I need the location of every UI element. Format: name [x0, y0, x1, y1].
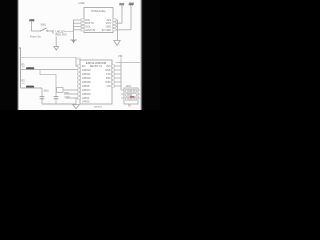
ground — [114, 41, 120, 46]
svg-text:GPIO19: GPIO19 — [82, 77, 91, 80]
MCU U2 ESP32 — [78, 57, 115, 108]
svg-text:GND: GND — [105, 69, 111, 72]
svg-text:SW1: SW1 — [41, 23, 47, 27]
ground — [73, 98, 80, 109]
wire U2 pin go — [63, 89, 78, 91]
svg-text:VIN: VIN — [118, 54, 122, 58]
svg-text:LRCK IN: LRCK IN — [85, 29, 95, 32]
wire pin stubs U1 left — [74, 20, 82, 30]
svg-text:DEVKIT V1: DEVKIT V1 — [90, 65, 103, 68]
svg-text:GPIO18: GPIO18 — [82, 81, 91, 84]
svg-text:REG 3V3: REG 3V3 — [56, 33, 68, 37]
svg-text:EN: EN — [82, 65, 86, 68]
wire to right edge — [116, 62, 143, 64]
pin dashes — [127, 91, 136, 99]
svg-text:GPIO21: GPIO21 — [82, 73, 91, 76]
wire — [64, 93, 78, 95]
wire corner down — [41, 88, 43, 104]
ground — [54, 47, 59, 51]
wire ground rail — [42, 103, 76, 105]
svg-text:GPIO22: GPIO22 — [82, 69, 91, 72]
ground — [70, 40, 76, 43]
wire from left edge — [18, 48, 21, 88]
wire — [32, 30, 41, 32]
wire branch down — [40, 70, 56, 104]
svg-text:RX0: RX0 — [106, 77, 111, 80]
svg-text:GPIO0: GPIO0 — [82, 101, 90, 104]
wire U1 pin2 to 3V3 — [116, 22, 122, 24]
svg-text:5V: 5V — [128, 105, 131, 108]
wire down to ground — [117, 20, 119, 40]
resistor R1 label — [22, 63, 26, 68]
svg-text:10k: 10k — [22, 67, 25, 69]
node bus left of U1 — [73, 20, 75, 40]
svg-text:DEVKIT: DEVKIT — [94, 107, 103, 109]
wire with R2 — [21, 87, 43, 89]
capacitor C1 — [40, 97, 45, 99]
resistor R2 label — [22, 80, 26, 85]
power flag +5V — [29, 19, 34, 31]
svg-text:TX0: TX0 — [106, 73, 111, 76]
wire U1 pin3 — [116, 25, 118, 27]
power flag 3V3 — [119, 2, 124, 23]
pin boxes left — [78, 65, 81, 99]
wire — [48, 30, 54, 32]
wire pin stubs U2 right — [115, 66, 122, 86]
svg-text:U101: U101 — [79, 1, 86, 5]
wire to ground arrow — [55, 36, 57, 47]
right black bar — [143, 0, 161, 110]
button B1 — [57, 88, 70, 100]
pin boxes left — [81, 19, 84, 31]
svg-text:3V3: 3V3 — [106, 65, 111, 68]
wire J1 right — [138, 90, 142, 98]
IC U1 PCM5102 DAC — [79, 1, 117, 33]
wire U1 pin4 to 5V — [116, 29, 131, 31]
wire U1 pin1 — [116, 19, 118, 21]
red mark — [130, 96, 134, 98]
wire with R1 to U2 — [21, 69, 78, 71]
svg-text:GPIO16: GPIO16 — [82, 93, 91, 96]
capacitor C2 — [54, 97, 59, 99]
wire long horizontal — [21, 57, 77, 59]
pin boxes right — [113, 19, 116, 31]
svg-text:GPIO17: GPIO17 — [82, 89, 91, 92]
bus right of U2 — [120, 63, 122, 91]
resistor R2 — [26, 86, 34, 88]
svg-text:GPIO5: GPIO5 — [82, 85, 90, 88]
svg-text:IO23: IO23 — [105, 81, 111, 84]
left black bar — [0, 0, 17, 110]
power flag 5V — [128, 2, 134, 29]
connector J1 — [124, 85, 138, 107]
net label VBAT — [118, 54, 122, 62]
wire — [66, 97, 78, 99]
svg-text:100n: 100n — [44, 90, 50, 92]
svg-text:Power Sw: Power Sw — [30, 35, 41, 38]
svg-text:5V GND: 5V GND — [102, 29, 112, 32]
wire — [64, 31, 74, 33]
svg-text:PCM Audio: PCM Audio — [92, 9, 106, 13]
svg-text:GPIO4: GPIO4 — [82, 97, 90, 100]
switch SW1 — [40, 23, 48, 32]
svg-text:VIN: VIN — [107, 85, 111, 88]
svg-text:10k: 10k — [22, 83, 25, 85]
wire down to U2 pin1 — [76, 58, 78, 67]
wire J1 left — [121, 90, 124, 98]
resistor R1 — [26, 67, 34, 69]
pin boxes right — [112, 65, 115, 87]
transistor Q1 — [53, 29, 67, 36]
